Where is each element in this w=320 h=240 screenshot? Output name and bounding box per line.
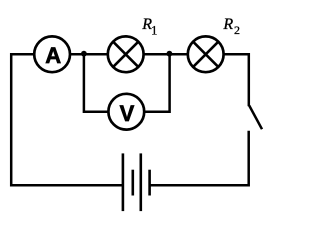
wire top rail: from top-left corner to top-right corner (10, 53, 249, 56)
lamp R1 (108, 36, 144, 72)
node A (junction dot left) (81, 51, 87, 57)
battery B1: cell 2 short plate (148, 170, 151, 196)
battery B1: cell 1 short plate (132, 170, 135, 196)
ammeter A (34, 36, 70, 72)
svg-text:V: V (120, 101, 135, 126)
battery B1: cell 2 long plate (140, 153, 143, 211)
svg-text:R: R (222, 16, 233, 33)
label R2 (222, 16, 240, 37)
battery B1: cell 1 long plate (122, 153, 125, 211)
wire right side upper: top-right corner down to switch top terminal (248, 53, 251, 106)
svg-text:1: 1 (151, 24, 157, 38)
switch S (open blade) (249, 106, 262, 130)
svg-text:A: A (45, 43, 61, 68)
wire voltmeter branch: down from node A, across, up to node B (84, 54, 170, 111)
lamp R2 (188, 36, 224, 72)
label R1 (141, 16, 157, 38)
svg-text:2: 2 (234, 23, 240, 37)
wire left side and bottom-left: from top-left corner down and right to battery (11, 53, 123, 185)
wire bottom-right: from battery right terminal to bottom-right corner and up to switch bottom terminal (150, 131, 249, 185)
node B (junction dot right) (167, 51, 173, 57)
voltmeter V (108, 94, 144, 130)
